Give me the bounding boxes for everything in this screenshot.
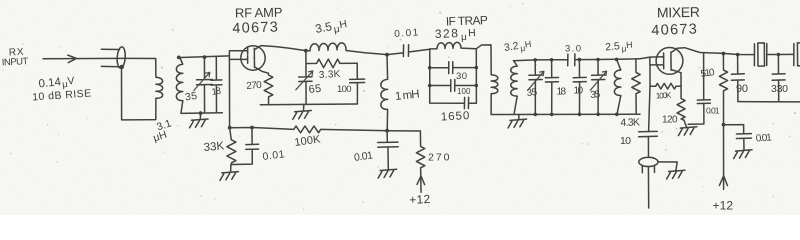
label 40673 mixer: [651, 21, 697, 39]
resistor R7 100K mixer: [650, 65, 681, 89]
label 0.01: [394, 27, 419, 40]
capacitor C13 18: [545, 60, 558, 115]
resistor R3 3.3K: [306, 59, 357, 68]
label 328 uH: [435, 26, 478, 44]
capacitor C18 0.01 supply bypass mixer: [724, 125, 752, 150]
capacitor C9 30: [430, 62, 477, 74]
label 10 injection: [620, 135, 631, 147]
label 4.3K: [620, 116, 640, 129]
label 18: [557, 87, 567, 98]
ground tank1: [190, 113, 208, 128]
label 90: [736, 83, 748, 95]
wire mixer drain rail: [685, 48, 755, 55]
resistor R9 510: [719, 53, 727, 189]
label 100K: [294, 133, 322, 149]
node RX input label: [2, 47, 29, 69]
label 33K: [203, 140, 225, 154]
transistor Q1 40673 RF amp: [230, 46, 269, 74]
label MIXER: [657, 4, 700, 21]
capacitor C7 0.01 supply bypass: [378, 131, 399, 170]
wire bandpass top rail left: [513, 60, 567, 61]
wire bottom rail right: [738, 101, 800, 103]
resistor R8 120 source: [677, 73, 686, 127]
capacitor C15 variable 35: [590, 60, 606, 115]
capacitor C4 variable 65: [296, 51, 313, 104]
node +12 arrow RF: [409, 176, 431, 207]
label 1650: [441, 110, 470, 123]
resistor R1 33K: [227, 128, 236, 165]
label 3.2 uH: [503, 38, 532, 55]
label 30: [456, 71, 467, 82]
inductor L3 3.5uH: [310, 43, 346, 51]
capacitor C5 100: [350, 63, 365, 104]
inductor L8 2.5uH: [614, 59, 620, 114]
label 3.3K: [319, 69, 341, 81]
label 0.14 uV 10 dB RISE: [32, 75, 92, 104]
wire supply rail with resistor R4 100K: [230, 126, 421, 133]
transistor Q2 40673 mixer: [640, 48, 685, 75]
crystal Y2 partial: [794, 43, 800, 66]
capacitor C2 18: [211, 57, 222, 113]
node dot 1mH top: [385, 53, 389, 57]
inductor L5 328uH trap coil and box: [430, 42, 477, 103]
node dot supply 1mH: [385, 129, 389, 133]
label 100K mixer: [656, 91, 673, 101]
resistor R5 270 supply: [416, 131, 424, 192]
resistor R6 4.3K: [632, 59, 640, 114]
capacitor C12 variable 35: [528, 60, 544, 115]
label 510: [700, 67, 716, 80]
label 270: [246, 80, 263, 92]
ground bandpass: [508, 115, 526, 128]
capacitor C17 0.01 source bypass: [688, 53, 710, 124]
ground supply bypass: [378, 169, 396, 178]
label 100: [337, 84, 352, 95]
ground gate bias: [220, 165, 238, 181]
node dot supply junction: [722, 52, 726, 127]
node junction dots tank1: [177, 55, 207, 115]
node bandpass dots bottom: [534, 113, 619, 117]
label 0.01 right: [755, 132, 772, 144]
inductor L1 3.1uH primary loop: [122, 58, 163, 120]
wire gate bias vertical: [228, 51, 230, 128]
label 3.5 uH: [314, 17, 349, 39]
ground RF stage: [293, 104, 311, 119]
capacitor C6 0.01 coupling: [403, 45, 429, 57]
connector J2 oscillator jack: [639, 157, 658, 208]
label 65: [308, 83, 322, 96]
inductor L7 3.2uH: [511, 61, 517, 115]
node trap junction dots: [428, 66, 478, 88]
resistor R2 270 source: [264, 73, 273, 104]
label 35: [526, 87, 538, 99]
capacitor C10 100: [430, 80, 477, 92]
capacitor C1 variable 35: [194, 57, 213, 113]
capacitor C3 0.01 bypass: [232, 128, 259, 165]
capacitor C16 10 injection: [639, 86, 658, 157]
label 35: [590, 89, 601, 101]
label 18: [211, 86, 222, 98]
wire bottom rail RF stage: [260, 103, 357, 106]
label 120: [662, 115, 678, 126]
label IF TRAP: [446, 13, 488, 28]
ground jack: [667, 170, 685, 179]
capacitor C8 1650: [464, 97, 468, 109]
wire input arrow: [43, 55, 122, 63]
capacitor C14 10: [573, 60, 586, 115]
crystal Y1: [754, 43, 766, 66]
capacitor C20 330: [772, 55, 785, 102]
label 40673: [232, 19, 278, 37]
wire bandpass bottom rail: [491, 113, 640, 115]
label 100: [457, 87, 471, 96]
connector J1 phono plug: [101, 47, 126, 69]
inductor L6 link coil: [476, 45, 498, 114]
node dots crystal rail: [736, 53, 780, 57]
label 10: [574, 86, 584, 97]
ground supply bypass mixer: [734, 150, 752, 159]
capacitor C11 3.0 series: [568, 54, 575, 66]
node +12 arrow mixer: [713, 176, 734, 213]
wire tank1 bottom rail: [181, 112, 222, 115]
node dot drain network: [304, 49, 308, 53]
wire bandpass top rail right: [575, 58, 640, 61]
label 330: [771, 83, 788, 95]
wire drain rail: [264, 46, 310, 51]
wire tank1 top rail: [178, 56, 230, 58]
wire rail between crystals: [767, 53, 794, 55]
label 0.01: [353, 149, 374, 164]
label 3.0: [565, 44, 581, 55]
capacitor C19 90: [731, 55, 744, 102]
ground mixer source: [678, 127, 696, 136]
node dot AGC: [228, 126, 254, 130]
label RF AMP: [235, 5, 283, 21]
inductor L2 secondary coil: [176, 58, 182, 114]
label 270: [428, 152, 450, 164]
label 0.01 source bypass: [706, 106, 720, 116]
node bandpass dots top: [533, 58, 618, 62]
wire rail to coupling cap: [346, 51, 403, 55]
label 35: [184, 90, 198, 104]
label 3.1 uH: [152, 117, 173, 144]
label 1 mH: [395, 88, 421, 102]
label 2.5 uH: [605, 39, 634, 55]
label 0.01: [262, 148, 285, 163]
wire jack shield: [658, 162, 677, 171]
inductor L4 1mH: [381, 55, 388, 131]
